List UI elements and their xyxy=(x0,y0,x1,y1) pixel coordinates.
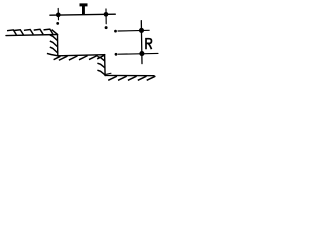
wire middle surface line xyxy=(58,55,105,56)
node dot left end of T xyxy=(56,13,60,17)
hatching left of riser 1 xyxy=(47,35,58,56)
hatching above top-left surface xyxy=(7,29,57,35)
corner flick above bottom surface xyxy=(106,73,111,74)
wire riser 1 (vertical step face) xyxy=(57,34,59,56)
extension line upper (at top surface level) xyxy=(118,29,149,32)
node dot top end of R xyxy=(139,28,143,32)
wire top-left surface line xyxy=(6,35,58,36)
wire bottom-right surface line xyxy=(105,74,154,76)
dot below left tick xyxy=(57,23,59,25)
tick right end of T xyxy=(105,9,107,24)
dot start of upper extension line xyxy=(115,30,117,32)
dimension line R (vertical) xyxy=(140,21,143,64)
dot below right tick xyxy=(105,27,107,29)
label R (drawn as path) xyxy=(146,39,152,50)
label T (drawn as path) xyxy=(80,4,87,14)
wire riser 2 (vertical step face) xyxy=(104,55,107,76)
dimension line T (horizontal) xyxy=(50,14,115,15)
dot start of lower extension line xyxy=(115,53,117,55)
hatching left of riser 2 xyxy=(97,57,104,75)
extension line lower (at middle surface level) xyxy=(118,52,158,55)
hatching below middle surface xyxy=(54,55,105,60)
hatching below bottom-right surface xyxy=(108,76,155,80)
node dot right end of T xyxy=(104,12,108,16)
tick left end of T xyxy=(57,9,59,20)
node dot bottom end of R xyxy=(140,52,144,56)
